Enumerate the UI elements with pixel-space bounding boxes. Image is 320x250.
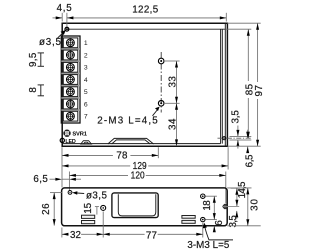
dim 4,5 [53, 17, 63, 19]
top view bottom inner lip line [62, 143, 220, 145]
bottom dims ext lines [62, 212, 203, 238]
right vent slots [182, 216, 195, 224]
svg-text:5: 5 [84, 89, 88, 96]
dim 78 [62, 154, 113, 156]
dim 34 line [176, 103, 178, 146]
bottom view top ext right [227, 187, 251, 189]
svg-text:SVR1: SVR1 [72, 131, 87, 137]
dim 129 [62, 165, 130, 167]
LED indicator [60, 138, 64, 142]
dim 3,5 ext lines (hole tangents) [230, 135, 252, 137]
svg-text:30: 30 [249, 198, 260, 210]
top view outline [62, 23, 227, 146]
hole B3 [201, 217, 205, 221]
corner hole o3,5 [65, 27, 69, 31]
svg-text:26: 26 [41, 203, 52, 215]
dim 97 [257, 23, 259, 82]
svg-text:78: 78 [116, 151, 128, 162]
terminal block outline [61, 36, 80, 123]
large louver [108, 138, 154, 144]
dim 120 [69, 174, 128, 176]
terminal screws [67, 39, 75, 120]
dim 30 [247, 188, 249, 226]
svg-text:33: 33 [168, 76, 179, 88]
svg-text:7: 7 [84, 114, 88, 121]
bottom view bottom ext right [227, 225, 261, 227]
svg-text:6: 6 [84, 101, 88, 108]
dim 33 ticks [165, 61, 180, 103]
svg-text:122,5: 122,5 [132, 5, 159, 16]
svg-text:9,5: 9,5 [28, 52, 39, 67]
svg-text:97: 97 [254, 85, 265, 97]
ext line top right [227, 22, 260, 24]
dim 26 [50, 192, 62, 194]
side hole right [223, 137, 226, 140]
ext line bottom right [227, 145, 260, 147]
svg-text:120: 120 [131, 171, 146, 182]
svg-text:LED: LED [65, 139, 75, 145]
svg-text:1: 1 [84, 40, 88, 47]
svg-text:6: 6 [214, 220, 225, 226]
dim 18 ticks [205, 196, 217, 219]
svg-text:ø3,5: ø3,5 [39, 37, 61, 48]
left vent slots [82, 215, 95, 224]
dim 14,5 [231, 187, 241, 189]
hole B1 [101, 205, 106, 210]
dim 77 [103, 233, 144, 235]
svg-text:14,5: 14,5 [237, 181, 248, 198]
svg-text:77: 77 [146, 230, 157, 241]
dim 85 [247, 29, 249, 81]
dim 6 [213, 226, 215, 232]
window cutout [112, 193, 158, 218]
dim 3,5 bottom right [236, 211, 238, 219]
terminal divider bands [61, 49, 80, 110]
svg-text:18: 18 [202, 200, 213, 211]
mounting hole U1 [158, 58, 164, 64]
dim 33 line [176, 61, 178, 103]
svg-text:ø3,5: ø3,5 [86, 190, 107, 201]
bottom view outline [62, 188, 228, 226]
mounting hole U2 [158, 101, 164, 107]
svg-text:3-M3 L=5: 3-M3 L=5 [187, 240, 229, 250]
dim 3,5 arrows [237, 126, 239, 137]
interior centerline [160, 52, 162, 113]
svg-text:6,5: 6,5 [244, 154, 255, 167]
leader to hole B3 [205, 227, 233, 240]
hole B2 [201, 194, 205, 198]
small louver bump [81, 141, 92, 144]
side hole centerline [218, 137, 252, 139]
dim 18 [213, 196, 215, 219]
svg-text:34: 34 [168, 118, 179, 130]
svg-text:4,5: 4,5 [57, 3, 73, 14]
SVR1 potentiometer [63, 130, 70, 137]
side slot right [223, 204, 227, 209]
hole A [68, 191, 72, 195]
svg-text:3,5: 3,5 [230, 110, 241, 124]
top view right edge lip lines [221, 23, 226, 146]
svg-text:6,5: 6,5 [33, 174, 48, 185]
svg-text:3: 3 [84, 65, 88, 72]
svg-text:32: 32 [70, 230, 81, 241]
terminal cells [63, 38, 78, 121]
top dim ext lines [62, 13, 226, 27]
leader to hole U2 [153, 110, 158, 116]
dim 6,5 right [247, 130, 249, 139]
middle dims ext lines [62, 147, 228, 203]
svg-text:4: 4 [84, 77, 88, 84]
dim 122,5 [67, 17, 226, 19]
svg-text:2: 2 [84, 52, 88, 59]
top view inner top edge line [67, 28, 226, 30]
dim 32 [62, 233, 69, 235]
svg-text:15: 15 [83, 202, 94, 213]
svg-text:2-M3 L=4,5: 2-M3 L=4,5 [97, 116, 158, 127]
svg-text:8: 8 [28, 87, 39, 93]
terminal numbers 1-7 [84, 40, 88, 120]
